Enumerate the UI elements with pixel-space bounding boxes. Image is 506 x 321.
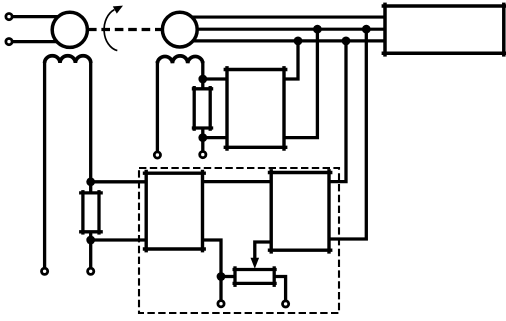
wire bus line 2: [186, 28, 388, 31]
terminal R1 bottom: [88, 268, 94, 274]
junction node R1 bottom: [86, 236, 95, 245]
terminal input 2: [6, 39, 12, 45]
resistor R1: [79, 190, 103, 235]
junction node R1 top: [86, 177, 95, 186]
field winding L2: [157, 56, 202, 63]
resistor R2: [192, 86, 213, 131]
terminal L1 left: [42, 268, 48, 274]
wire block B wiper arm to potentiometer: [255, 242, 271, 260]
terminal controller left: [218, 301, 224, 307]
junction node R2 bottom: [198, 133, 207, 142]
wire field winding L2 right leg down through R2: [201, 61, 204, 151]
wire field winding L1 right leg down through R1: [89, 62, 92, 268]
wire middle box right bottom pin up to bus 2: [284, 29, 317, 137]
generator M2: [162, 12, 197, 47]
wire R1 bottom node to block A: [91, 238, 147, 241]
wire middle box right top pin up to bus 3: [284, 41, 298, 79]
potentiometer RP: [233, 258, 277, 287]
wire junction to potentiometer left end: [221, 275, 235, 278]
dashed enclosure box (control unit): [139, 168, 339, 313]
wire R2 bottom node to middle box: [203, 136, 227, 139]
wire block A to block B top: [203, 180, 272, 183]
terminal controller right: [283, 301, 289, 307]
wiper arrowhead: [251, 258, 260, 269]
wire block B right top pin up to bus 3: [329, 41, 346, 182]
junction node potentiometer left: [217, 272, 226, 281]
terminal L2 left: [154, 152, 160, 158]
terminal input 1: [6, 14, 12, 20]
block A (controller left): [143, 170, 206, 253]
junction node bus2 left: [313, 25, 322, 34]
middle box (field rectifier): [224, 66, 288, 151]
block B (controller right): [268, 169, 333, 254]
wire field winding L2 left leg down: [156, 61, 159, 151]
wire field winding L1 left leg down: [43, 62, 46, 268]
wire block A right bottom pin down to terminal: [203, 240, 222, 300]
junction node bus3 left: [294, 37, 303, 46]
wire bus line 1: [186, 16, 388, 19]
top right box (load): [382, 3, 506, 57]
wire terminal1 to motor M1: [11, 15, 60, 18]
field winding L1: [45, 56, 91, 63]
junction node bus3 right: [342, 37, 351, 46]
shaft coupling dashed line: [88, 28, 163, 31]
wire R2 top node to middle box: [203, 77, 227, 80]
wire block B right bottom pin up to bus 2: [329, 29, 366, 239]
terminal R2 bottom: [200, 152, 206, 158]
wire terminal2 to motor M1: [11, 40, 60, 43]
wire bus line 3: [186, 39, 388, 42]
rotation arrow: [104, 6, 123, 51]
wire R1 top node to block A: [91, 180, 147, 183]
wire potentiometer right end down to terminal: [274, 277, 285, 301]
motor M1: [52, 12, 87, 47]
junction node R2 top: [198, 75, 207, 84]
junction node bus2 right: [362, 25, 371, 34]
